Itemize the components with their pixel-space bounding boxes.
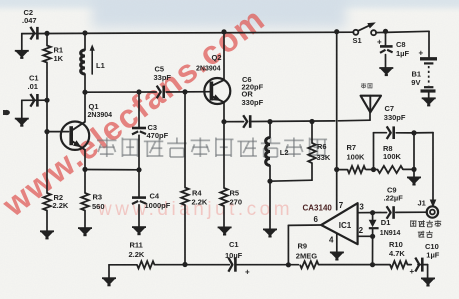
capacitor C1 (.01)	[22, 94, 47, 107]
wire L2-R6 bottom	[270, 180, 312, 181]
label C3	[147, 123, 169, 140]
node C1-R1	[44, 98, 49, 103]
node bus-R1	[44, 31, 49, 36]
node R4 top	[182, 89, 187, 94]
node bus-L1	[82, 30, 87, 35]
diode D1	[369, 213, 379, 237]
ground under R2	[40, 231, 54, 238]
resistor R8	[374, 166, 415, 173]
capacitor C8	[380, 31, 393, 67]
resistor R11	[137, 261, 155, 268]
ground under C1	[15, 100, 29, 125]
wire x47 mid	[46, 100, 48, 131]
label R8	[383, 144, 402, 161]
resistor R1	[43, 33, 51, 100]
switch S1	[353, 22, 376, 35]
wire emitter to C-divider	[85, 169, 139, 171]
wire pin2	[358, 235, 373, 237]
label L1	[96, 61, 105, 70]
wire top bus right segment	[376, 31, 429, 32]
label pin2	[359, 226, 364, 235]
label C5	[154, 64, 172, 82]
wire output	[288, 225, 321, 265]
antenna	[361, 96, 381, 121]
label C4	[145, 192, 171, 210]
wire top bus left segment	[22, 32, 354, 33]
label Q2	[196, 53, 222, 72]
label pin7	[339, 201, 344, 210]
node R7-R8	[371, 167, 376, 172]
capacitor C9	[387, 206, 394, 219]
wire Q1 emitter	[84, 150, 86, 170]
node L1-C3	[82, 90, 87, 95]
node C3 top	[136, 89, 141, 94]
watermark red diagonal	[0, 0, 272, 224]
wire y121	[224, 120, 370, 122]
capacitor C1 (10uF)	[228, 258, 235, 272]
ground bottom-left	[102, 265, 116, 285]
wire Q1 collector	[84, 92, 86, 122]
node R7 left	[334, 167, 339, 172]
capacitor C6	[243, 115, 250, 128]
wire V+ drop	[336, 32, 338, 210]
label R11	[129, 241, 145, 259]
capacitor C3	[132, 92, 146, 170]
ground under C8	[379, 68, 393, 75]
label R10	[389, 240, 405, 258]
label C1 .01	[28, 74, 39, 91]
wire bottom rail	[109, 264, 428, 266]
ground under C4	[132, 227, 146, 234]
label pin3	[359, 203, 364, 212]
label S1	[353, 36, 362, 45]
label C2	[22, 8, 37, 25]
capacitor C7	[374, 126, 415, 169]
label C9	[384, 186, 404, 203]
wire to jack	[414, 133, 436, 208]
node L2 top	[267, 119, 272, 124]
label C8 plus	[377, 38, 382, 47]
node bus-Q2	[221, 29, 226, 34]
node pin3-D1	[370, 210, 375, 215]
ground under L2	[263, 181, 277, 236]
node C3-C4	[136, 167, 141, 172]
node bus-C8	[383, 29, 388, 34]
ground under R8	[407, 169, 421, 184]
node L2 bottom	[267, 179, 272, 184]
node R6 top	[309, 119, 314, 124]
ground pin4	[330, 252, 344, 259]
label R3	[92, 193, 105, 212]
transistor Q2	[204, 78, 230, 104]
ground bottom-right	[421, 265, 435, 286]
watermark pink horizontal	[97, 199, 293, 220]
label pin6	[314, 215, 319, 224]
label J1	[418, 199, 426, 208]
label R6	[317, 142, 331, 162]
label R7	[347, 143, 366, 162]
node R8 right	[411, 167, 416, 172]
label pin4	[329, 235, 334, 244]
inductor L1	[81, 33, 95, 92]
resistor R2	[43, 132, 51, 231]
transistor Q1	[61, 122, 89, 151]
resistor R7	[337, 166, 374, 173]
label CA3140	[303, 203, 333, 212]
node emitter junction	[82, 167, 87, 172]
label B1	[411, 70, 421, 88]
resistor R4	[181, 92, 189, 265]
node Q2 emitter junction	[221, 119, 226, 124]
wire pin3	[358, 211, 427, 214]
ground under R3	[78, 228, 92, 235]
label antenna	[361, 83, 373, 88]
label IC1	[339, 221, 352, 230]
wire pin4	[336, 234, 338, 252]
label D1	[380, 218, 401, 237]
capacitor C10	[415, 258, 422, 272]
wire Q1 base	[47, 131, 69, 133]
label C7	[384, 104, 406, 122]
battery B1	[420, 31, 437, 97]
label B1 plus	[419, 49, 424, 58]
jack J1	[427, 206, 438, 217]
label C6	[242, 75, 264, 107]
capacitor C4	[132, 170, 146, 227]
inductor L2	[266, 122, 270, 182]
node R4 bottom	[182, 262, 187, 267]
resistor R9	[300, 261, 319, 268]
label C1 10uF	[225, 240, 250, 277]
label R9	[296, 242, 317, 261]
label R5	[230, 188, 243, 206]
capacitor C5	[157, 86, 164, 99]
label mic input	[411, 220, 442, 237]
wire D1 to bottom	[372, 236, 374, 264]
node Q1 base junction	[44, 129, 49, 134]
ground top-left	[15, 34, 29, 58]
node bus-R7	[334, 29, 339, 34]
wire Q2 emitter	[223, 102, 225, 121]
wire C7-x414 drop	[413, 133, 415, 170]
node output-bottom	[286, 262, 291, 267]
label R2	[53, 193, 69, 210]
wire Q2 collector	[223, 32, 225, 80]
label C8	[396, 40, 409, 58]
watermark gray chinese	[97, 138, 327, 158]
capacitor C2	[30, 27, 37, 40]
node D1 bottom	[370, 262, 375, 267]
ground under R5	[218, 227, 232, 234]
ground under B1	[422, 98, 436, 105]
label R4	[192, 189, 208, 207]
label C10	[410, 242, 440, 276]
resistor R3	[81, 169, 89, 227]
resistor R5	[220, 122, 228, 227]
op-amp IC1	[321, 203, 357, 244]
resistor R10	[390, 261, 408, 268]
node pin2-D1	[370, 234, 375, 239]
scan artifact	[3, 110, 10, 115]
label R1	[54, 45, 64, 63]
node C7 right	[411, 130, 416, 135]
wire y92	[85, 91, 210, 94]
label Q1	[88, 102, 113, 119]
resistor R6	[308, 122, 316, 181]
label L2	[280, 148, 289, 157]
